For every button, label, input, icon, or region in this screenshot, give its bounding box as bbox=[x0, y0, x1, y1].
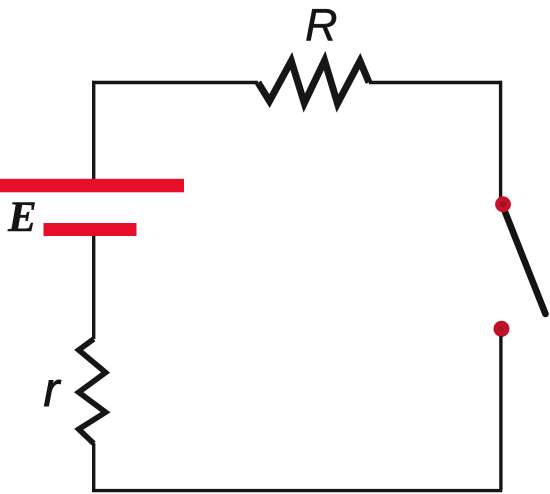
switch contact dot top bbox=[495, 196, 511, 212]
switch contact dot top dark center bbox=[500, 201, 506, 207]
wire left vertical upper segment bbox=[92, 81, 95, 180]
wire left vertical middle segment bbox=[92, 236, 95, 339]
battery positive plate (long) bbox=[0, 179, 184, 193]
wire right vertical upper segment bbox=[499, 81, 502, 200]
switch contact dot bottom bbox=[494, 321, 510, 337]
switch contact dot bottom dark center bbox=[499, 326, 504, 331]
svg-text:E: E bbox=[7, 194, 37, 241]
wire top horizontal left segment bbox=[92, 81, 258, 84]
resistor R bbox=[258, 61, 369, 104]
switch blade bbox=[504, 208, 546, 314]
battery negative plate (short) bbox=[44, 223, 137, 236]
svg-text:R: R bbox=[305, 0, 338, 51]
wire top horizontal right segment bbox=[369, 81, 502, 84]
wire right vertical lower segment bbox=[499, 336, 502, 490]
svg-text:r: r bbox=[44, 364, 62, 417]
wire left vertical lower segment bbox=[92, 443, 95, 490]
resistor r bbox=[79, 339, 106, 444]
wire bottom horizontal bbox=[92, 489, 502, 492]
